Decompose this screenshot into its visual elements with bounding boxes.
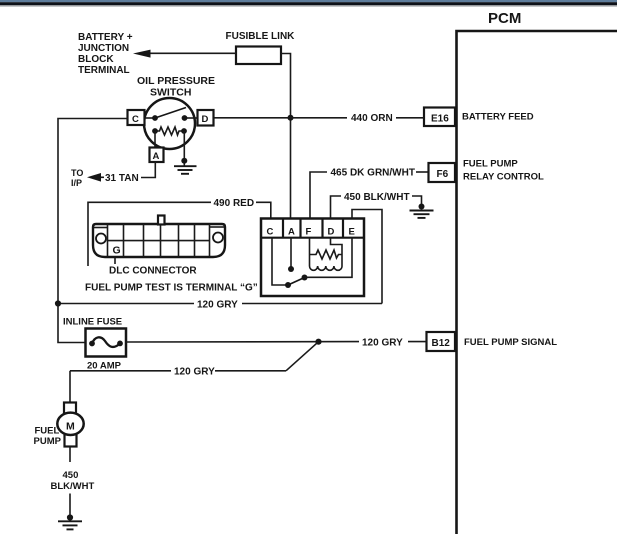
PCM pin B12 [427,332,456,351]
label FUEL PUMP [34,426,62,447]
relay switch contact blade [285,275,308,289]
svg-text:120 GRY: 120 GRY [174,367,215,378]
relay pin D [328,219,344,238]
ground (relay 450 BLK/WHT) [410,204,434,218]
wire fusible link to 440 ORN junction and relay pin A [281,54,291,220]
svg-text:RELAY CONTROL: RELAY CONTROL [463,172,544,183]
wire 440 ORN (switch D to PCM E16) [214,117,425,119]
svg-text:BLOCK: BLOCK [78,54,114,65]
wire 120 GRY (relay bus to fuse junction) [58,303,382,305]
ground (fuel pump) [58,494,82,530]
oil pressure switch pin D [198,110,214,126]
svg-text:SWITCH: SWITCH [150,87,191,99]
wire relay D to 450 BLK/WHT [331,196,342,219]
svg-text:A: A [288,227,295,238]
junction node 440 ORN [288,115,294,121]
svg-text:I/P: I/P [71,178,82,188]
svg-text:B12: B12 [432,338,451,349]
svg-text:INLINE FUSE: INLINE FUSE [63,317,122,328]
svg-text:D: D [328,227,335,238]
svg-text:FUEL PUMP: FUEL PUMP [463,159,518,170]
wire D stub [185,117,198,119]
wire relay F to 465 DK GRN/WHT [310,172,327,219]
svg-text:OIL PRESSURE: OIL PRESSURE [137,75,215,87]
svg-text:31 TAN: 31 TAN [105,173,139,184]
svg-text:PCM: PCM [488,10,521,27]
svg-text:120 GRY: 120 GRY [197,299,238,310]
wire 465 DK GRN/WHT to PCM F6 [416,171,429,173]
svg-text:A: A [153,151,160,162]
svg-text:440 ORN: 440 ORN [351,113,393,124]
wire 31 TAN to switch pin A [141,162,155,178]
wire C stub [145,117,156,119]
PCM module outline [457,10,617,534]
svg-text:465 DK GRN/WHT: 465 DK GRN/WHT [331,168,415,179]
relay pin F [306,219,323,238]
DLC terminal G [113,244,121,264]
arrow wire to battery junction block terminal [133,50,236,58]
oil pressure switch body [144,98,195,149]
svg-text:D: D [202,114,209,125]
wire 120 GRY branch to fuel pump [70,342,319,403]
svg-text:TO: TO [71,168,83,178]
oil pressure switch pin C [128,110,145,125]
svg-text:FUSIBLE LINK: FUSIBLE LINK [226,31,296,42]
label 450 BLK/WHT (fuel pump) [51,470,95,492]
svg-text:C: C [132,114,139,125]
svg-text:G: G [113,244,121,256]
svg-text:490 RED: 490 RED [214,198,255,209]
junction node fuel pump branch [315,339,321,345]
relay pin C [261,219,364,238]
svg-text:FUEL PUMP SIGNAL: FUEL PUMP SIGNAL [464,337,557,348]
svg-text:450: 450 [63,470,79,481]
wire junction to inline fuse [58,304,86,343]
inline fuse [86,329,127,357]
svg-text:DLC CONNECTOR: DLC CONNECTOR [109,266,197,277]
svg-text:450 BLK/WHT: 450 BLK/WHT [344,192,410,203]
junction node at inline fuse branch [55,300,61,306]
wire relay E to 120 GRY bus [352,210,382,304]
label FUEL PUMP RELAY CONTROL [463,159,544,183]
oil pressure switch pin A [150,131,164,162]
wire relay C internal [272,238,288,285]
svg-text:BATTERY +: BATTERY + [78,32,133,43]
switch contact blade [152,108,187,121]
PCM pin F6 [429,163,456,182]
fusible link [236,47,281,65]
fuel pump motor M [57,403,83,447]
wire 490 RED (DLC branch to relay pin C) [88,202,271,266]
DLC connector body [93,216,225,258]
svg-text:FUEL PUMP TEST IS TERMINAL “G”: FUEL PUMP TEST IS TERMINAL “G” [85,283,258,294]
wire fuel pump to 450 BLK/WHT ground [69,447,71,463]
wire switch C to 120 GRY junction (left bus) [58,119,128,304]
svg-text:F6: F6 [437,169,449,180]
svg-text:JUNCTION: JUNCTION [78,43,129,54]
svg-text:E: E [349,227,355,238]
wire 450 BLK/WHT to ground [412,196,422,208]
svg-text:BLK/WHT: BLK/WHT [51,481,95,492]
svg-text:M: M [66,420,75,432]
svg-text:120 GRY: 120 GRY [362,337,403,348]
label OIL PRESSURE SWITCH [137,75,215,99]
svg-text:E16: E16 [431,114,449,125]
relay coil [310,238,343,271]
PCM pin E16 [424,108,455,127]
wire relay A internal with contact [288,238,294,272]
wire 120 GRY (fuse to PCM B12) [126,341,427,343]
ground (oil pressure switch) [174,131,197,174]
arrow to I/P [87,173,104,182]
svg-text:BATTERY FEED: BATTERY FEED [462,112,534,123]
svg-text:C: C [267,227,274,238]
label BATTERY + JUNCTION BLOCK TERMINAL [78,32,133,76]
svg-text:20 AMP: 20 AMP [87,361,122,372]
relay pin A [288,219,301,238]
sender resistor inside switch [152,127,187,135]
fuel pump relay outer box [261,219,364,297]
svg-text:F: F [306,227,312,238]
wire relay E internal [305,238,353,278]
svg-text:TERMINAL: TERMINAL [78,65,130,76]
label TO I/P [71,168,83,188]
svg-text:PUMP: PUMP [34,436,62,447]
